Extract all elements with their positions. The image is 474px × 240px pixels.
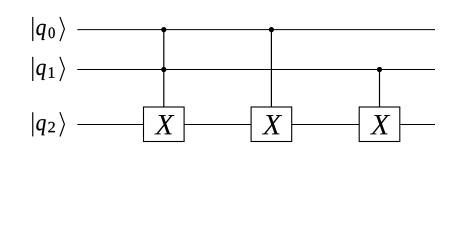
node q0 label |q0> [33, 17, 65, 41]
wire gate2 vertical control line [270, 30, 272, 107]
node q1 label |q1> [33, 57, 65, 81]
wire q0 [77, 29, 435, 31]
wire gate3 vertical control line [379, 70, 381, 108]
wire gate1 vertical control line [163, 30, 165, 107]
control dot gate1 on q1 [161, 67, 166, 72]
node q2 label |q2> [33, 112, 65, 136]
control dot gate2 on q0 [269, 27, 274, 32]
control dot gate3 on q1 [377, 67, 382, 72]
gate X box 3 (CNOT target on q2) [359, 107, 400, 142]
gate X box 2 (CNOT target on q2) [251, 107, 292, 142]
control dot gate1 on q0 [161, 27, 166, 32]
wire q2 [77, 124, 435, 126]
wire q1 [77, 69, 435, 71]
gate X box 1 (Toffoli target on q2) [144, 107, 185, 142]
